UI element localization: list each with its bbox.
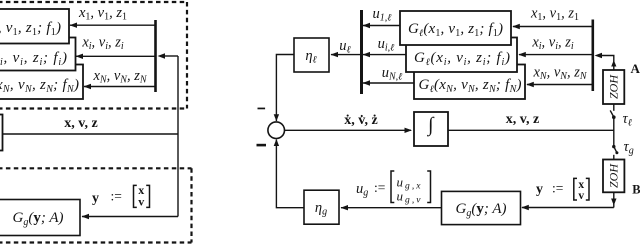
svg-text:x1, v1, z1: x1, v1, z1: [78, 5, 127, 23]
wire u_g from G_g to eta_g: [341, 207, 442, 209]
wire x,v,z (left figure): [3, 133, 179, 135]
eta_g box: [304, 190, 339, 224]
arrowhead ZOH A output up: [611, 60, 616, 67]
wire u_Nl branch: [363, 82, 414, 84]
wire xi,vi,zi branch (right figure): [519, 54, 593, 56]
sampler tau_l upper wire: [613, 104, 615, 111]
minus sign upper at summing junction: [258, 108, 266, 110]
sampler tau_l lower wire: [613, 117, 615, 130]
sampler tau_l contact dot: [612, 115, 616, 119]
ZOH B box: [603, 160, 624, 193]
svg-text:v: v: [138, 194, 144, 208]
svg-text:v: v: [578, 190, 584, 202]
arrowhead u_il into bus: [363, 52, 371, 57]
arrowhead into G_l1 (left figure): [70, 23, 78, 28]
svg-text:B: B: [632, 183, 640, 197]
svg-text:ZOH: ZOH: [607, 163, 621, 188]
eta_l box: [294, 38, 329, 72]
arrowhead ZOH A output into bus: [595, 53, 603, 58]
global block G_g box: [442, 191, 521, 224]
sampler tau_l arm: [610, 110, 614, 117]
feed vertical wire (left figure): [177, 56, 179, 217]
svg-text:ẋ, v̇, ż: ẋ, v̇, ż: [344, 113, 377, 128]
svg-text::=: :=: [552, 181, 563, 196]
minus sign lower at summing junction: [257, 144, 267, 147]
wire eta_l output to summing junction: [276, 55, 294, 122]
wire ZOH A output to bus: [598, 56, 614, 71]
arrowhead eta_l into summing junction: [274, 114, 279, 121]
arrowhead u_Nl into bus: [363, 80, 371, 85]
local block G_l 1 box: [400, 11, 511, 45]
arrowhead into integrator: [405, 128, 413, 133]
sampler tau_g upper wire: [613, 130, 615, 146]
arrowhead into G_l i (left figure): [76, 54, 84, 59]
distribution bus line (right figure): [591, 20, 594, 92]
arrowhead u_g into eta_g: [341, 205, 349, 210]
svg-text:x, v, z: x, v, z: [506, 112, 539, 127]
wire y from ZOH B to G_g: [522, 207, 614, 209]
arrowhead x1 into G_l1: [512, 24, 520, 29]
wire ZOH B output down to y line: [613, 192, 615, 207]
distribution bus line (left figure): [154, 20, 157, 92]
wire x,v,z from integrator to junction: [448, 129, 615, 131]
sampler tau_g arm: [614, 147, 617, 153]
wire x1,v1,z1 branch (right figure): [513, 26, 593, 28]
arrowhead xi into G_li: [518, 52, 526, 57]
svg-text:y: y: [536, 182, 543, 197]
wire x1,v1,z1 branch (left figure): [70, 24, 156, 26]
svg-text:y: y: [92, 191, 99, 206]
sampler tau_g lower wire: [613, 155, 615, 160]
arrowhead into G_g (left figure): [82, 214, 90, 219]
feed wire into bus (left figure): [162, 55, 178, 57]
svg-text:A: A: [631, 61, 640, 76]
svg-text:xi, vi, zi: xi, vi, zi: [81, 35, 124, 53]
wire xN,vN,zN branch (right figure): [527, 84, 593, 86]
svg-text:Gℓ(xi, vi, zi; fi): Gℓ(xi, vi, zi; fi): [0, 50, 67, 68]
svg-text:x1, v1, z1: x1, v1, z1: [530, 6, 579, 24]
arrowhead feed into bus (left figure): [158, 53, 166, 58]
local block G_l N box: [414, 65, 525, 100]
local block G_l i box: [406, 38, 517, 73]
local block G_l(x1,v1,z1;f1) (left figure, cropped): [0, 9, 69, 44]
local block G_l(xN,vN,zN;fN) (left figure, cropped): [0, 65, 83, 100]
integrator box: [414, 112, 448, 146]
arrowhead xN into G_lN: [526, 82, 534, 87]
sampler tau_g contact dot: [612, 145, 615, 148]
wire xN,vN,zN branch (left figure): [84, 86, 156, 88]
svg-text:Gg(y; A): Gg(y; A): [13, 210, 64, 228]
arrowhead eta_g into summing junction: [274, 139, 279, 146]
svg-text:x, v, z: x, v, z: [64, 116, 97, 131]
wire xi,vi,zi branch (left figure): [76, 55, 156, 57]
svg-text::=: :=: [374, 180, 385, 195]
svg-text:xi, vi, zi: xi, vi, zi: [531, 35, 574, 53]
u collection bus line: [360, 10, 363, 94]
arrowhead y into G_g: [521, 205, 529, 210]
arrowhead into G_l N (left figure): [84, 84, 92, 89]
svg-text::=: :=: [111, 189, 122, 204]
arrowhead u_1l into bus: [363, 23, 371, 28]
wire u_il branch: [363, 54, 406, 56]
dashed box around global block (left figure, bottom): [0, 168, 192, 242]
global block G_g(y;A) box (left figure, cropped): [0, 200, 80, 236]
local block G_l(xi,vi,zi;fi) (left figure, cropped): [0, 38, 76, 71]
wire eta_g output to summing junction: [276, 140, 304, 208]
integrator box (left figure, cropped): [0, 115, 3, 151]
arrowhead u_l into eta_l: [331, 52, 339, 57]
arrowhead ZOH B output down: [611, 199, 616, 206]
ZOH A box: [603, 70, 624, 104]
svg-text:Gg(y; A): Gg(y; A): [456, 201, 507, 219]
dashed box around local blocks (left figure, top): [0, 2, 187, 109]
sampler tau_g arm end dot: [615, 151, 618, 154]
wire u_l from bus to eta_l: [331, 54, 362, 56]
wire from summing junction to integrator: [285, 129, 411, 131]
wire u_1l branch: [363, 25, 400, 27]
svg-text:ZOH: ZOH: [607, 74, 621, 99]
summing junction circle: [268, 122, 285, 139]
wire y into G_g (left figure): [82, 216, 178, 218]
